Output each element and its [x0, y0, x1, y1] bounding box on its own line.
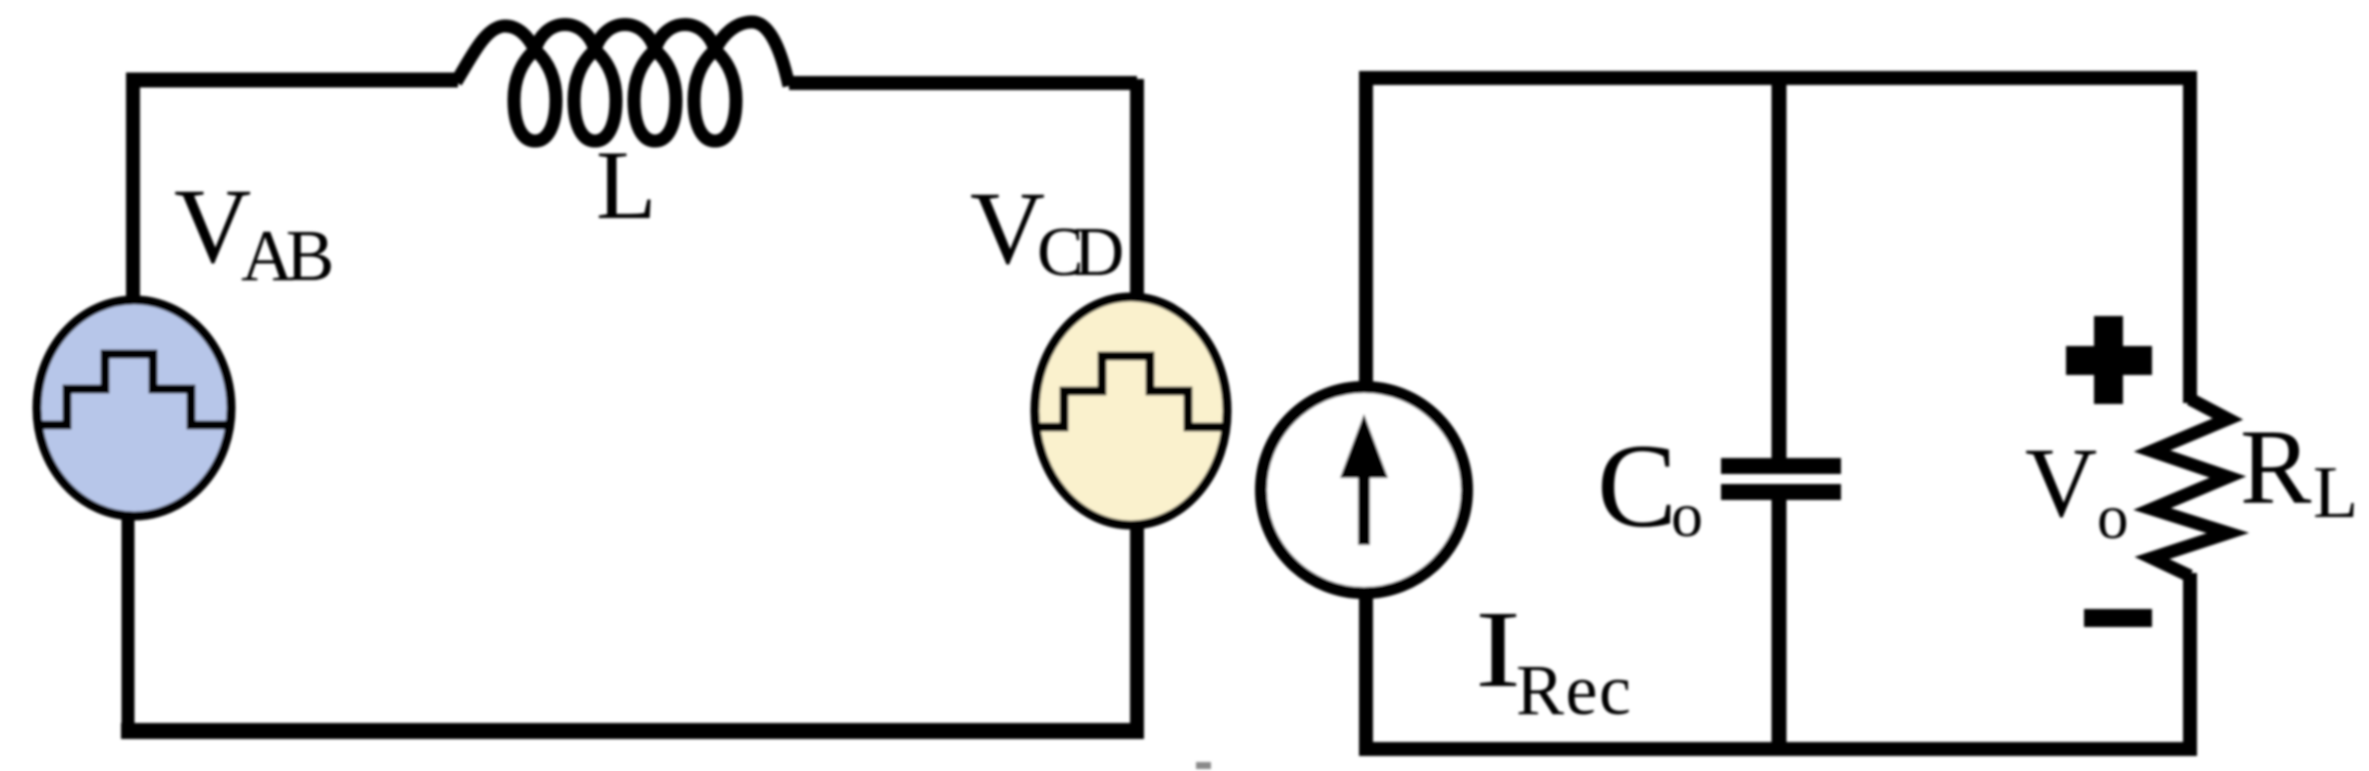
svg-text:C: C [1597, 419, 1677, 552]
capacitor C_o plates [1721, 458, 1841, 474]
arrow shaft [1358, 478, 1370, 545]
artifact mark [1196, 762, 1211, 769]
svg-text:Rec: Rec [1516, 650, 1632, 730]
svg-text:I: I [1475, 588, 1521, 710]
wire: right circuit left vertical [1359, 71, 1373, 754]
svg-text:L: L [596, 131, 656, 240]
wire: left loop lower-right vertical [1130, 526, 1144, 737]
wire: right circuit right vertical upper (to R_L) [2183, 71, 2197, 403]
wire: left loop bottom horizontal [121, 723, 1144, 739]
wire: left loop lower-left vertical [122, 514, 135, 730]
minus sign [2084, 609, 2152, 627]
wire: right circuit right vertical lower (from R_L) [2183, 573, 2197, 756]
svg-text:V: V [2025, 427, 2097, 538]
arrow head [1340, 414, 1388, 478]
wire: middle branch vertical upper (to C_o) [1772, 71, 1787, 470]
svg-text:o: o [2097, 482, 2129, 552]
V_AB step waveform [30, 354, 240, 425]
svg-text:L: L [2313, 452, 2358, 534]
wire: left loop top horizontal (left lead of L) [126, 73, 458, 88]
V_CD step waveform [1027, 356, 1237, 427]
svg-text:o: o [1671, 479, 1703, 550]
svg-text:V: V [174, 168, 251, 286]
wire: left loop upper-right vertical [1130, 79, 1144, 297]
resistor R_L zigzag [2152, 399, 2228, 576]
wire: right circuit top horizontal [1359, 71, 2196, 85]
svg-text:AB: AB [241, 215, 332, 296]
wire: left loop top horizontal (right lead of L) [789, 76, 1137, 90]
svg-text:V: V [970, 171, 1045, 286]
wire: middle branch vertical lower (from C_o) [1772, 488, 1787, 754]
current source I_Rec [1261, 387, 1467, 593]
wire: right circuit bottom horizontal [1359, 742, 2197, 756]
plus sign [2066, 316, 2152, 404]
svg-text:CD: CD [1037, 214, 1122, 291]
voltage source V_AB (blue ellipse) [30, 300, 240, 516]
wire: left loop upper-left vertical [126, 80, 140, 300]
svg-text:R: R [2240, 409, 2312, 527]
inductor L coil [456, 22, 789, 141]
voltage source V_CD (yellow ellipse) [1027, 297, 1237, 525]
